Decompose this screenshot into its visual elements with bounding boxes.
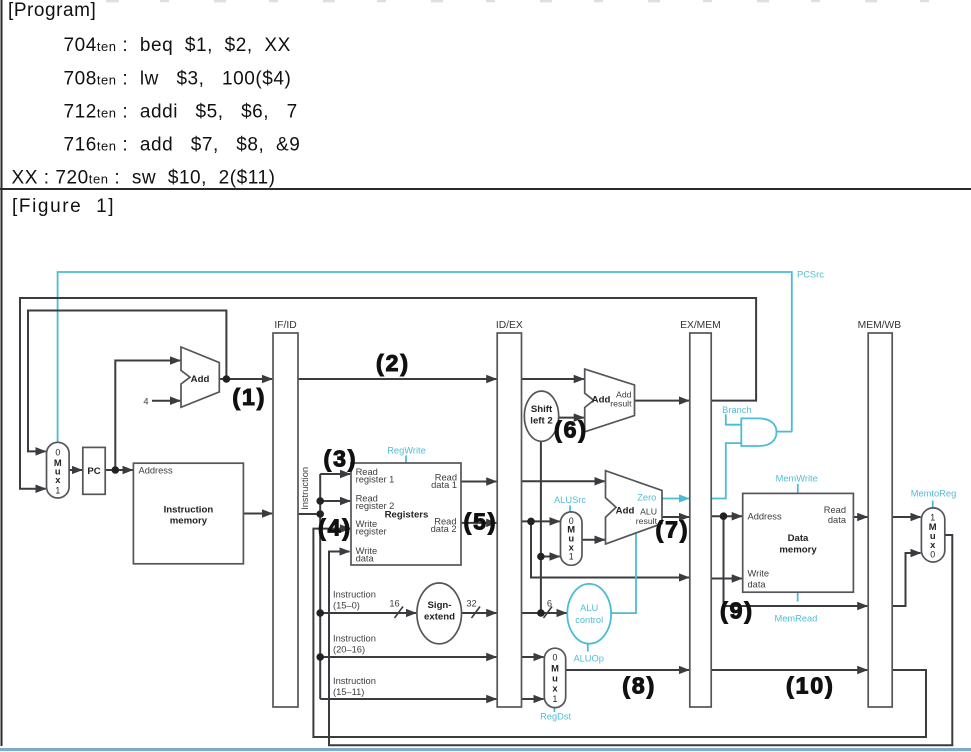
wire: ALU result bypass down to MEM/WB (9) xyxy=(724,516,868,606)
svg-text:memory: memory xyxy=(170,516,208,527)
svg-text:Sign-: Sign- xyxy=(428,600,452,611)
svg-text:Zero: Zero xyxy=(637,493,656,503)
wire: read data after MEM/WB to MemtoReg mux 1 xyxy=(892,516,920,518)
svg-text:data 1: data 1 xyxy=(431,480,457,490)
data memory box xyxy=(743,493,854,592)
control tick: MemtoReg xyxy=(932,501,934,508)
svg-text:0: 0 xyxy=(553,653,558,663)
pipeline register EX/MEM xyxy=(690,333,711,707)
wire: read register 2 input xyxy=(320,500,350,502)
control tick: RegDst xyxy=(553,708,555,712)
svg-text:ID/EX: ID/EX xyxy=(496,320,523,331)
svg-text:ALUSrc: ALUSrc xyxy=(554,495,586,505)
control tick: ALUSrc xyxy=(569,506,571,512)
svg-text:Address: Address xyxy=(748,512,782,522)
svg-text:(15–11): (15–11) xyxy=(333,687,364,697)
pipeline register ID/EX xyxy=(497,333,521,707)
wire: shift left 2 output to branch adder xyxy=(559,417,584,419)
wire: ALUSrc mux output to ALU xyxy=(582,539,605,541)
junction dots xyxy=(112,375,728,661)
svg-text:(15–0): (15–0) xyxy=(333,601,360,611)
cropped text remnants top edge xyxy=(106,0,929,2)
wire: Zero flag ALU to EX/MEM (cyan) xyxy=(662,498,689,500)
svg-text:Instruction: Instruction xyxy=(333,634,376,644)
svg-text:MEM/WB: MEM/WB xyxy=(858,320,902,331)
svg-text:RegDst: RegDst xyxy=(540,712,571,722)
wire: data memory read data to MEM/WB xyxy=(853,516,867,518)
ALU control ellipse (cyan) xyxy=(567,584,611,644)
svg-text:1: 1 xyxy=(553,694,558,704)
wire: Branch stub into AND gate (cyan) xyxy=(726,414,742,424)
wire: ALU result after MEM/WB to MemtoReg mux 0 xyxy=(892,553,920,606)
svg-text:Instruction: Instruction xyxy=(164,505,214,516)
wire: Add output to IF/ID (1) xyxy=(219,378,272,380)
bus width slash 32 xyxy=(472,607,481,619)
wire: PC+4 ID/EX to branch adder xyxy=(522,378,584,380)
ALU xyxy=(606,471,663,544)
adder Add (PC+4) xyxy=(181,347,219,407)
wire: RegDst mux output to EX/MEM (8) xyxy=(566,669,689,671)
page frame: divider under program xyxy=(0,188,971,190)
svg-text:32: 32 xyxy=(466,599,476,609)
AND gate (cyan) xyxy=(741,418,776,446)
node: instruction 15-0 junction xyxy=(316,609,324,617)
RegDst mux xyxy=(544,648,565,707)
wire: read data 1 after ID/EX to ALU xyxy=(522,480,605,482)
svg-text:IF/ID: IF/ID xyxy=(274,320,296,331)
svg-text:(6): (6) xyxy=(554,417,588,443)
wire: PC to instruction memory address xyxy=(105,469,132,471)
wire: PC+4 loop back to PC mux input 0 xyxy=(28,311,226,452)
svg-text:704ten : beq $1, $2, XX: 704ten : beq $1, $2, XX xyxy=(64,35,291,56)
svg-text:PCSrc: PCSrc xyxy=(797,270,824,280)
svg-text:x: x xyxy=(55,474,61,485)
node: sign-extend fork to ALUSrc mux xyxy=(537,553,545,561)
pipeline register IF/ID xyxy=(273,333,298,707)
node: instruction 20-16 junction xyxy=(316,653,324,661)
svg-text:data: data xyxy=(748,580,767,590)
wire: write reg number EX/MEM to MEM/WB (10) xyxy=(711,669,867,671)
svg-text:Registers: Registers xyxy=(385,510,429,521)
wire: branch of sign-extend to ALUSrc mux 1 xyxy=(541,556,560,558)
svg-text:data 2: data 2 xyxy=(431,524,457,534)
instruction memory box xyxy=(133,463,243,564)
svg-text:x: x xyxy=(930,539,936,550)
svg-text:Address: Address xyxy=(139,466,173,476)
wire: instruction out of IF/ID xyxy=(298,513,320,515)
pipeline register MEM/WB xyxy=(868,333,892,707)
control tick: ALUOp xyxy=(587,644,589,652)
svg-text:ALU: ALU xyxy=(640,507,657,517)
svg-text:Instruction: Instruction xyxy=(300,467,310,510)
PCSrc mux xyxy=(47,442,70,498)
wire: write reg number return MEM/WB to Registers write register (4) xyxy=(313,529,926,737)
svg-text:x: x xyxy=(552,683,558,694)
svg-text:MemtoReg: MemtoReg xyxy=(911,489,956,499)
svg-text:1: 1 xyxy=(55,486,60,496)
bus width slash 6 xyxy=(544,607,553,619)
svg-text:Data: Data xyxy=(788,533,809,544)
svg-text:16: 16 xyxy=(389,599,399,609)
svg-text:(5): (5) xyxy=(463,509,497,535)
svg-text:Instruction: Instruction xyxy=(333,590,376,600)
svg-text:ALU: ALU xyxy=(580,603,598,613)
control tick: MemRead xyxy=(797,592,799,601)
svg-text:708ten : lw $3, 100($4): 708ten : lw $3, 100($4) xyxy=(64,68,292,89)
svg-text:(3): (3) xyxy=(323,446,357,472)
svg-text:data: data xyxy=(828,515,847,525)
svg-text:6: 6 xyxy=(547,599,552,609)
wire: instruction memory output to IF/ID xyxy=(243,513,272,515)
svg-text:extend: extend xyxy=(424,612,455,623)
sign extend ellipse xyxy=(417,583,462,644)
adder Add (branch target) xyxy=(585,369,635,432)
svg-text:Add: Add xyxy=(616,506,635,517)
shift left 2 ellipse xyxy=(524,391,558,441)
svg-text:712ten : addi $5, $6, 7: 712ten : addi $5, $6, 7 xyxy=(64,101,298,122)
svg-text:716ten : add $7, $8, &9: 716ten : add $7, $8, &9 xyxy=(64,135,301,156)
svg-text:XX : 720ten : sw $10, 2($11: XX : 720ten : sw $10, 2($11) xyxy=(12,168,276,189)
wire: PCSrc control (cyan) top run from AND gate to PC mux xyxy=(58,272,792,442)
wire: Zero after EX/MEM up to AND gate (cyan) xyxy=(711,443,741,498)
wire: PC+4 IF/ID to ID/EX (2) xyxy=(298,378,496,380)
registers box xyxy=(351,463,461,565)
svg-text:(1): (1) xyxy=(232,384,266,410)
svg-text:(7): (7) xyxy=(655,517,689,543)
wire: instruction 15-0 to sign extend xyxy=(320,612,416,614)
wire: AND gate output to PCSrc vertical (cyan) xyxy=(777,431,792,433)
svg-text:data: data xyxy=(356,553,375,563)
wire: constant 4 into Add xyxy=(152,400,180,402)
PC register box xyxy=(83,447,105,494)
wire: PC mux output to PC xyxy=(69,469,82,471)
wire: branch adder result to EX/MEM xyxy=(635,400,690,402)
svg-text:Branch: Branch xyxy=(722,405,751,415)
wire: read data 2 down and around to EX/MEM (write data path) xyxy=(531,521,689,577)
svg-text:Instruction: Instruction xyxy=(333,676,376,686)
svg-text:(2): (2) xyxy=(376,350,410,376)
wire: ALU result to EX/MEM (7) xyxy=(662,516,689,518)
node: read data 2 fork xyxy=(527,518,535,526)
wire: read data 1 to ID/EX xyxy=(461,481,496,483)
node: PC output junction xyxy=(112,466,120,474)
page frame: bottom blue rule xyxy=(0,748,971,751)
svg-text:EX/MEM: EX/MEM xyxy=(680,320,721,331)
svg-text:1: 1 xyxy=(569,551,574,561)
wire: write data EX/MEM to data memory xyxy=(711,578,742,580)
control tick: MemWrite xyxy=(797,484,799,493)
svg-text:4: 4 xyxy=(143,397,148,407)
wire: 15-11 after ID/EX to RegDst mux 1 xyxy=(522,698,544,700)
wire: sign-extend after ID/EX to ALU control xyxy=(522,612,567,614)
svg-text:Add: Add xyxy=(592,395,611,406)
svg-text:(9): (9) xyxy=(720,598,754,624)
ALUSrc mux xyxy=(561,512,583,565)
node: instruction main junction xyxy=(316,510,324,518)
svg-text:ALUOp: ALUOp xyxy=(573,654,604,664)
wire: instruction distribution vertical xyxy=(319,474,321,699)
svg-text:memory: memory xyxy=(779,545,817,556)
wire: PC up to Add top input xyxy=(115,361,180,471)
svg-text:register: register xyxy=(356,526,387,536)
svg-text:[Figure 1]: [Figure 1] xyxy=(12,196,115,217)
svg-text:Shift: Shift xyxy=(531,404,553,415)
svg-text:RegWrite: RegWrite xyxy=(387,446,426,456)
wire: ALU result EX/MEM to data memory address xyxy=(711,515,742,517)
bus width slash 16 xyxy=(395,607,404,619)
wire: ALU control output to ALU (cyan) xyxy=(611,533,636,614)
wire: MemtoReg mux output return to Registers write data xyxy=(329,535,952,745)
wire: read register 1 input (3) xyxy=(320,473,350,475)
svg-text:MemWrite: MemWrite xyxy=(776,474,818,484)
svg-text:Add: Add xyxy=(191,374,210,385)
svg-text:PC: PC xyxy=(87,466,100,477)
svg-text:left 2: left 2 xyxy=(530,416,552,427)
wire: read data 2 to ID/EX (5) xyxy=(461,522,496,524)
MemtoReg mux xyxy=(921,508,944,562)
wire: read data 2 after ID/EX to ALUSrc mux 0 xyxy=(522,520,560,522)
svg-text:(8): (8) xyxy=(622,673,656,699)
svg-text:result: result xyxy=(636,516,658,526)
wire: sign extend to ID/EX xyxy=(462,612,497,614)
wire: branch target return (EX/MEM to PC mux input 1) xyxy=(20,298,756,489)
wire: instruction 20-16 to ID/EX xyxy=(320,656,496,658)
page frame: left border xyxy=(1,0,3,746)
svg-text:register 1: register 1 xyxy=(356,474,395,484)
svg-text:0: 0 xyxy=(55,448,60,458)
wire: 20-16 after ID/EX to RegDst mux 0 xyxy=(522,656,544,658)
node: sign-extend fork at ALU control wire xyxy=(537,609,545,617)
node: Add output junction xyxy=(223,375,231,383)
node: ALU result fork at data memory xyxy=(720,512,728,520)
svg-text:(10): (10) xyxy=(786,673,835,699)
svg-text:(20–16): (20–16) xyxy=(333,645,365,655)
svg-text:Read: Read xyxy=(824,505,846,515)
svg-text:0: 0 xyxy=(930,550,935,560)
wire: instruction 15-11 to ID/EX xyxy=(320,698,496,700)
svg-text:[Program]: [Program] xyxy=(8,0,96,21)
wire: sign-extend vertical up to shift left 2 xyxy=(540,441,542,613)
svg-text:Write: Write xyxy=(748,569,770,579)
control tick: RegWrite xyxy=(405,456,407,464)
node: instruction to read reg 2 xyxy=(316,497,324,505)
svg-text:result: result xyxy=(610,399,632,409)
svg-text:MemRead: MemRead xyxy=(774,614,817,624)
svg-text:control: control xyxy=(575,615,603,625)
svg-text:(4): (4) xyxy=(318,515,352,541)
